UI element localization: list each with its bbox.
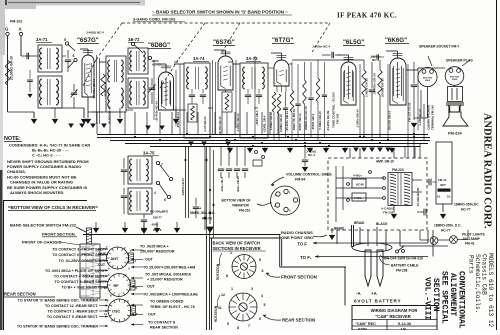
svg-text:40Ω+ GR-10: 40Ω+ GR-10 [236,176,240,192]
svg-text:6: 6 [164,198,166,202]
svg-text:TO CONTACT 12 -REAR SECT.: TO CONTACT 12 -REAR SECT. [45,304,98,308]
svg-text:16MFD-350v.DC: 16MFD-350v.DC [454,203,479,207]
svg-text:OUT: OUT [148,313,157,317]
svg-text:HC-80: HC-80 [356,183,364,187]
svg-text:J-.25Ω HC-27: J-.25Ω HC-27 [418,108,422,126]
svg-text:.01-200v HC-7B: .01-200v HC-7B [326,111,330,131]
svg-text:2000Ω GR-10: 2000Ω GR-10 [381,78,385,97]
cap across coil [65,59,71,61]
tube 6L5G [341,62,356,105]
svg-text:TERMINAL FM-140: TERMINAL FM-140 [431,105,435,130]
svg-text:RF: RF [114,284,120,288]
svg-text:ANT: ANT [111,257,119,261]
svg-text:J-400m NC-4: J-400m NC-4 [312,45,331,49]
svg-text:TO CONTACT 8: TO CONTACT 8 [148,321,175,325]
osc coil core lines [136,159,138,181]
coils box border [3,200,87,202]
svg-text:TO B+ + '6K6' RESISTOR: TO B+ + '6K6' RESISTOR [62,286,106,290]
leader arrows left [99,248,108,250]
svg-text:OSC: OSC [112,310,120,314]
svg-text:TO CONTACT 9 -REAR SECT.: TO CONTACT 9 -REAR SECT. [47,315,98,319]
electrolytic cap 2 [423,209,425,216]
svg-text:3A-73: 3A-73 [246,56,258,61]
svg-text:6V-.15AMP: 6V-.15AMP [463,237,481,241]
power feed verticals [349,148,351,158]
junction dots [134,136,136,138]
ant area caps [27,79,33,81]
svg-text:VIBRATOR: VIBRATOR [232,204,250,208]
svg-text:BAND SELECTOR SWITCH FM-222: BAND SELECTOR SWITCH FM-222 [10,223,77,228]
title table [352,306,437,331]
bus lines [97,134,428,136]
osc switch contacts [156,161,159,164]
svg-text:250,000 GR-10: 250,000 GR-10 [388,110,392,130]
svg-text:5: 5 [259,258,261,262]
transformer hatch [390,174,396,176]
svg-text:RO-300μMFD: RO-300μMFD [150,210,168,214]
coil core lines [47,48,49,69]
switch contacts stage2 [131,42,134,45]
svg-text:ON-OFF SWITCH FM-216: ON-OFF SWITCH FM-216 [384,257,423,261]
gang trimmer 2 [149,87,155,89]
dashed gang cond outline [122,22,330,24]
svg-text:FM-94: FM-94 [295,178,305,182]
coil 3A-73 [106,56,126,112]
svg-text:SPEAKER SOCKET FM-7: SPEAKER SOCKET FM-7 [419,45,459,49]
svg-text:ROTATION: ROTATION [216,263,220,280]
svg-text:3A-75: 3A-75 [143,151,155,156]
svg-text:Parts: Parts [467,255,474,274]
svg-text:AMP. GR-10: AMP. GR-10 [376,160,394,164]
electrolytic cap 1 [428,179,430,186]
svg-text:11: 11 [104,312,107,316]
coupling cap [331,52,333,58]
tube 6K6G [390,58,406,105]
svg-text:TO CONTACT 5 -REAR SECT: TO CONTACT 5 -REAR SECT [55,280,106,284]
bus feeders [96,112,98,134]
speaker socket [418,67,437,86]
svg-text:-.0001 GR-4: -.0001 GR-4 [255,110,259,126]
svg-text:"6D8G": "6D8G" [148,42,170,49]
svg-text:.00007 GR-14: .00007 GR-14 [298,113,302,131]
svg-text:6: 6 [262,269,264,273]
osc mid vertical extension [206,146,208,238]
svg-text:PILOT LIGHTS: PILOT LIGHTS [462,233,486,237]
svg-text:TERM. OF ELECT - HC-78: TERM. OF ELECT - HC-78 [150,305,195,309]
svg-text:J-.05 GR-14: J-.05 GR-14 [203,116,207,132]
on-off switch [396,250,399,253]
svg-text:BRAID: BRAID [334,227,345,231]
wire A down [20,36,22,56]
wire to pilots [400,245,448,247]
svg-text:6MFD.-50v. D.C.: 6MFD.-50v. D.C. [190,211,215,215]
svg-text:VIEW: VIEW [452,79,457,81]
svg-text:REAR SECTION: REAR SECTION [150,326,178,330]
svg-text:ALWAYS SHOCK MOUNTED: ALWAYS SHOCK MOUNTED [10,190,64,195]
svg-text:6VOLT BATTERY: 6VOLT BATTERY [354,299,401,304]
svg-text:FM-223: FM-223 [392,168,404,172]
svg-text:"6L5G": "6L5G" [343,39,364,46]
svg-text:OUT: OUT [147,285,156,289]
svg-text:.1MFD GR-37: .1MFD GR-37 [181,178,185,196]
svg-text:16.: 16. [447,195,451,199]
svg-text:1: 1 [231,287,233,291]
svg-text:9-14-36: 9-14-36 [398,322,411,326]
svg-text:4: 4 [261,294,263,298]
detector components [272,92,276,112]
coil block hatched [80,244,100,298]
svg-text:HC-13: HC-13 [152,63,161,67]
svg-text:TO .0001MICA + 1000*RES.&AE: TO .0001MICA + 1000*RES.&AE [143,293,198,297]
svg-text:25,000Ω GR-10: 25,000Ω GR-10 [10,56,14,80]
resistor 25000 [5,60,9,85]
svg-text:REAR SECTION: REAR SECTION [282,318,315,323]
svg-text:ONE POINT GRD.: ONE POINT GRD. [281,235,314,240]
plug leader [462,60,470,66]
resistor bar [438,189,451,192]
svg-text:16MFD-350v. D.C.: 16MFD-350v. D.C. [434,224,462,228]
svg-text:FRONT SECTION.: FRONT SECTION. [42,232,76,237]
svg-text:2-MEG GR-10: 2-MEG GR-10 [279,114,283,132]
svg-text:~ BAND SELECTOR SWITCH SHOWN I: ~ BAND SELECTOR SWITCH SHOWN IN ‘S’ BAND… [152,10,288,15]
svg-text:4-40Ω+: 4-40Ω+ [353,174,362,178]
filament droppers [220,146,222,166]
svg-text:400Ω NC-4: 400Ω NC-4 [104,82,108,97]
svg-text:TO .005 MICA& .0001MICA: TO .005 MICA& .0001MICA [145,273,191,277]
svg-text:3-GANG COND. FM-103: 3-GANG COND. FM-103 [133,18,175,22]
svg-text:8: 8 [226,274,228,278]
speaker cone [443,112,468,126]
svg-text:BOTTOM VIEW OF: BOTTOM VIEW OF [222,199,251,203]
osc caps [121,169,127,171]
svg-text:TO 25,000*+250,000*RES.+AM: TO 25,000*+250,000*RES.+AM [143,266,195,270]
svg-text:1-MEG GR-10: 1-MEG GR-10 [269,112,273,130]
svg-text:4: 4 [154,191,156,195]
cathode resistor [101,74,105,96]
electrolytic 6mfd [193,206,199,208]
svg-text:HC-77: HC-77 [461,208,471,212]
vibrator socket [271,186,300,215]
right leaders [131,249,143,251]
svg-text:TO GREEN CODED: TO GREEN CODED [150,300,184,304]
svg-text:FM-238: FM-238 [396,269,408,273]
svg-text:+A: +A [371,291,378,296]
svg-text:FM-210: FM-210 [239,209,251,213]
svg-text:NC-4: NC-4 [308,153,315,157]
svg-text:FM-102: FM-102 [10,20,22,24]
tube 6S7G #2 [218,56,233,90]
to-f feed verticals [427,230,429,243]
output stage verticals [407,64,409,134]
AF components [362,70,366,95]
tube 6T7G [274,60,289,86]
svg-text:WIRING DIAGRAM FOR: WIRING DIAGRAM FOR [371,308,418,313]
svg-text:-10Ω+ HC-4: -10Ω+ HC-4 [220,176,224,192]
buffer rects [352,179,366,188]
battery cable [352,243,392,252]
svg-text:7: 7 [248,324,250,328]
stage4 extra verticals [254,56,256,140]
wafer ANT [107,247,129,269]
top horizontal connections [98,58,100,62]
svg-text:FM-142: FM-142 [336,113,340,124]
svg-text:"6T7G": "6T7G" [272,37,293,44]
svg-text:CHANGED IN VALUE OR RATING: CHANGED IN VALUE OR RATING [10,180,73,185]
svg-text:OUT: OUT [99,252,106,256]
wire G down [7,36,9,112]
svg-text:6: 6 [259,317,261,321]
contacts [383,177,386,180]
svg-text:TO STATOR 'M' BAND SERIES OSC.: TO STATOR 'M' BAND SERIES OSC. TRIMMER [17,325,98,329]
svg-text:VOLUME CONTROL-1MEG.: VOLUME CONTROL-1MEG. [286,173,333,177]
svg-text:.1-200v GR-14: .1-200v GR-14 [356,109,360,128]
speaker field assembly [448,87,463,102]
svg-text:"6S7G": "6S7G" [77,37,99,44]
rear wafer circle [229,293,257,321]
svg-text:CHASSIS.: CHASSIS. [7,169,26,174]
tube 6S7G #1 [82,55,94,97]
svg-text:EW-77: EW-77 [153,216,162,220]
svg-text:BLACK: BLACK [376,222,388,226]
inner wires [336,177,384,179]
svg-text:.0001 GR-14: .0001 GR-14 [176,112,180,128]
svg-text:1-MEG GR-10: 1-MEG GR-10 [365,77,369,97]
svg-text:FRONT OF CHASSIS: FRONT OF CHASSIS [22,240,62,245]
svg-text:5: 5 [264,303,266,307]
pilot lights [430,237,438,245]
svg-text:"C&B" REC: "C&B" REC [355,322,376,326]
svg-text:9: 9 [227,322,229,326]
svg-text:C -C₄ HC-2 - - -: C -C₄ HC-2 - - - [32,153,61,158]
svg-text:8: 8 [237,326,239,330]
svg-text:.01-400v GR-14: .01-400v GR-14 [373,73,377,95]
plate wires y112 [92,111,106,113]
svg-text:TO .0001 MICA + PLATE OF '6S7G: TO .0001 MICA + PLATE OF '6S7G' [45,269,105,273]
tube 6D8G [159,72,174,110]
stage3 extra verticals [235,60,237,128]
svg-text:VIEW: VIEW [425,80,430,82]
power supply dashed box [328,158,427,230]
svg-text:PART OF FM-94: PART OF FM-94 [292,109,296,130]
grid cap zigzags [83,50,93,52]
ground arrow coil [83,108,85,118]
svg-text:TO .0625 MICA +: TO .0625 MICA + [140,245,169,249]
svg-text:1: 1 [230,251,232,255]
svg-text:3: 3 [251,287,253,291]
svg-text:FRONT SECTION: FRONT SECTION [281,275,317,280]
front wafer circle [232,255,256,279]
svg-text:.00001 GR-4: .00001 GR-4 [311,114,315,130]
svg-text:SECTIONS IN RECEIVER: SECTIONS IN RECEIVER [213,246,261,251]
svg-text:300*: 300* [440,183,447,187]
svg-text:16.: 16. [437,195,441,199]
grid cap wire [87,49,89,55]
big ground arrow [209,218,211,224]
svg-text:12: 12 [221,293,225,297]
svg-text:"C&B" RECEIVER: "C&B" RECEIVER [375,314,411,319]
svg-text:TO CONTACT 3 -FRONT SECT: TO CONTACT 3 -FRONT SECT [52,248,105,252]
svg-text:OUT: OUT [98,263,105,267]
output cap [411,84,417,86]
svg-text:3A-72: 3A-72 [128,37,140,42]
svg-text:"6S7G": "6S7G" [213,39,235,46]
svg-text:BATTERY CABLE: BATTERY CABLE [391,264,419,268]
svg-text:25MFD-25v HC-78: 25MFD-25v HC-78 [304,106,308,130]
svg-text:11: 11 [218,306,222,310]
extra junction dots mid [205,159,207,161]
misc pads [255,151,258,154]
ground arrow ant [31,119,37,124]
svg-text:.1-200v GR-14: .1-200v GR-14 [236,113,240,132]
svg-text:TO CONTACT 1 -REAR SECT: TO CONTACT 1 -REAR SECT [48,310,99,314]
svg-text:3A-71: 3A-71 [36,37,48,42]
socket wires [427,87,429,118]
ground arrows stage1 [68,124,74,128]
field gnd arrow [442,204,444,212]
svg-text:ANDREA RADIO CORP.: ANDREA RADIO CORP. [482,113,493,229]
ground arrows row [54,108,56,118]
svg-text:FM-41: FM-41 [465,242,475,246]
svg-text:ROTATION: ROTATION [214,305,218,322]
svg-text:G: G [5,27,9,32]
svg-text:3A-74: 3A-74 [193,56,205,61]
border line right [496,0,498,330]
plate wire [99,61,106,63]
svg-text:IF PEAK 470 KC.: IF PEAK 470 KC. [337,12,397,20]
svg-text:=BOTTOM VIEW OF COILS IN RECEI: =BOTTOM VIEW OF COILS IN RECEIVER= [8,205,98,210]
svg-text:BRAID: BRAID [354,221,365,225]
svg-text:-.05-200v GR-14: -.05-200v GR-14 [285,111,289,132]
AF extra verticals [359,64,361,138]
svg-text:REAR SECTION: REAR SECTION [4,292,36,297]
svg-text:6: 6 [73,54,75,58]
svg-text:.05-400v GR-14: .05-400v GR-14 [92,78,96,99]
svg-text:FM-107: FM-107 [383,211,394,215]
bottom line of schematic [83,234,281,236]
svg-text:25,000 GR-10: 25,000 GR-10 [108,106,112,124]
svg-text:½-MEG GR-10: ½-MEG GR-10 [318,111,322,130]
svg-text:TO CONTACT 4 -REAR SECT.: TO CONTACT 4 -REAR SECT. [54,275,105,279]
svg-text:10-40Ω HC-80: 10-40Ω HC-80 [416,187,420,206]
af top cap [376,54,378,59]
wafer RF [108,274,131,297]
wire to coil [21,55,38,57]
svg-text:TO STATOR 'S' BAND SERIES OSC.: TO STATOR 'S' BAND SERIES OSC. TRIMMER [18,299,99,303]
svg-text:250,000* RESISTOR: 250,000* RESISTOR [140,250,175,254]
wafer spokes [126,257,129,259]
svg-text:OUT: OUT [145,258,154,262]
svg-text:FM-224: FM-224 [448,131,463,136]
scan edge top [0,0,145,6]
thick boundary [279,235,281,268]
svg-text:LEVEL GR-4: LEVEL GR-4 [263,115,267,132]
svg-text:30,000 GR-10: 30,000 GR-10 [218,116,222,134]
stage1 extra verticals [96,55,98,124]
back view box [209,238,211,330]
output transformer [446,102,464,104]
trimmer cap gang1 [71,92,77,94]
svg-text:12: 12 [104,286,108,290]
svg-text:+ 25,000* RESISTOR: + 25,000* RESISTOR [147,278,183,282]
svg-text:J-400Ω NC-4: J-400Ω NC-4 [86,31,104,35]
svg-text:BACK VIEW OF SWITCH: BACK VIEW OF SWITCH [213,241,261,246]
svg-text:VOL.-VIII: VOL.-VIII [423,277,432,320]
stage2 extra verticals [153,60,155,120]
svg-text:HC-78: HC-78 [202,217,212,221]
svg-text:HC-77: HC-77 [441,229,451,233]
speaker plug [445,67,464,86]
svg-text:5: 5 [64,38,66,42]
wafer OSC [108,299,131,322]
svg-text:"6K6G": "6K6G" [385,37,407,44]
field resistor box FM-44 [436,142,452,204]
scan edge left [0,0,5,55]
speaker feed verticals [407,134,409,158]
svg-text:FM-44: FM-44 [438,178,447,182]
switch shaft [87,228,92,244]
svg-text:TO F: TO F [297,242,307,247]
osc feed wires [185,146,187,218]
svg-text:-.05-400v NC-14: -.05-400v NC-14 [155,101,159,122]
svg-text:TO F₁: TO F₁ [300,255,312,260]
